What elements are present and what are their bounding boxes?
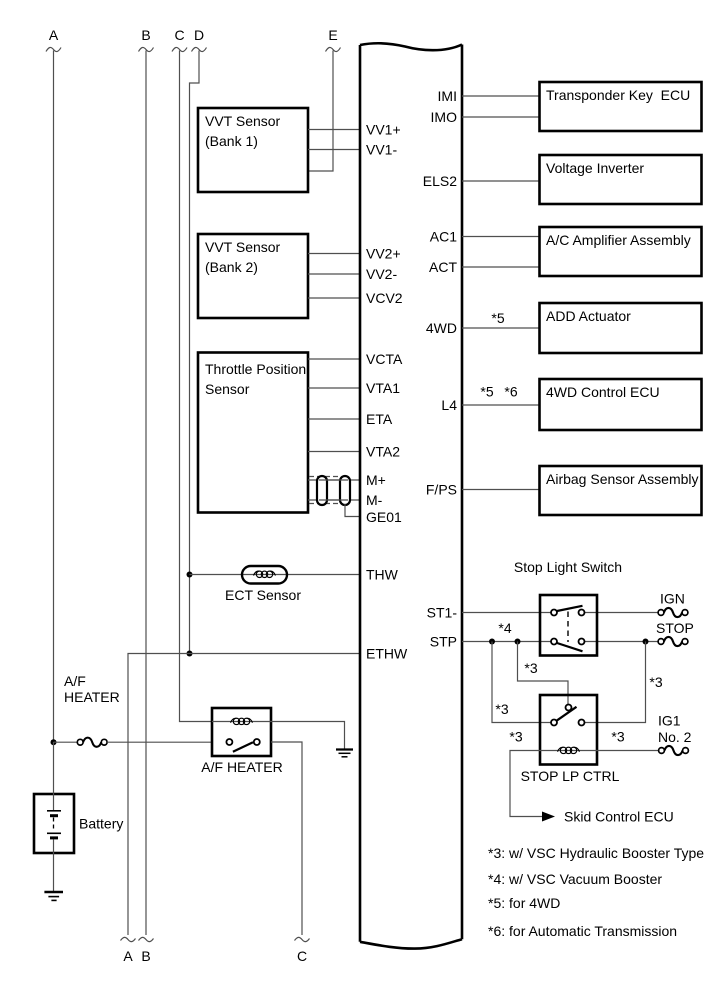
A/F relay switch blade [233, 742, 253, 752]
junction dot THW on D feeder [187, 572, 193, 578]
pin label VV1+ [366, 122, 401, 138]
connector label D (top) [194, 27, 204, 43]
wire from junction to fuse [54, 741, 78, 743]
pin label IMI [438, 88, 457, 104]
contact circle relay bottom-left [551, 720, 557, 726]
A/F relay coil glyph [231, 718, 253, 724]
svg-text:GE01: GE01 [366, 509, 402, 525]
break symbol at connector E [326, 47, 341, 51]
svg-text:C: C [297, 948, 307, 964]
shield connector capsule right [340, 476, 350, 505]
svg-text:A: A [123, 948, 133, 964]
svg-text:Voltage Inverter: Voltage Inverter [546, 160, 644, 176]
pin label ST1- [427, 605, 458, 621]
contact circle relay bottom-right [579, 720, 585, 726]
label *5 on 4WD wire [491, 310, 504, 326]
svg-text:ACT: ACT [429, 259, 457, 275]
label *3 near x531 [524, 660, 537, 676]
svg-text:4WD Control ECU: 4WD Control ECU [546, 384, 660, 400]
note *3 [488, 845, 704, 861]
label *3 near x656 [649, 674, 662, 690]
wire STP to stop light switch and STOP [462, 641, 658, 643]
svg-text:VVT Sensor: VVT Sensor [205, 113, 281, 129]
wire ELS2 [462, 180, 539, 182]
pin label M- [366, 492, 383, 508]
ECT Sensor label [225, 587, 301, 603]
svg-text:VVT Sensor: VVT Sensor [205, 239, 281, 255]
note *6 [488, 923, 677, 939]
ground symbol at relay coil [336, 750, 353, 757]
svg-text:A/F HEATER: A/F HEATER [201, 759, 282, 775]
svg-text:(Bank 1): (Bank 1) [205, 133, 258, 149]
svg-text:IG1: IG1 [658, 713, 681, 729]
svg-text:*4: w/ VSC Vacuum Booster: *4: w/ VSC Vacuum Booster [488, 871, 662, 887]
pin label F/PS [426, 482, 457, 498]
note *5 [488, 895, 560, 911]
Transponder Key ECU box [540, 82, 702, 131]
VVT Sensor (Bank 1) box [198, 108, 308, 192]
Stop Light Switch box S1 [540, 595, 597, 656]
4WD Control ECU box [540, 379, 702, 430]
break symbol at connector A [46, 47, 61, 51]
label *6 on L4 wire [504, 384, 517, 400]
svg-text:L4: L4 [441, 397, 457, 413]
relay coil glyph [558, 747, 580, 753]
connector label A (top) [49, 27, 59, 43]
contact circle S1 bottom-left [551, 639, 557, 645]
wire VV1- [308, 149, 360, 151]
bottom connector label A [123, 948, 133, 964]
fuse break connector on battery feed [77, 738, 107, 747]
Skid Control ECU label [564, 809, 674, 825]
pin label ETHW [366, 646, 408, 662]
Stop Light Switch title [514, 559, 622, 575]
STOP break connector [658, 637, 688, 646]
svg-text:D: D [194, 27, 204, 43]
wire battery to ground [53, 840, 55, 892]
svg-text:IMO: IMO [431, 109, 458, 125]
wire STP branch to relay bottom-left [492, 642, 551, 723]
svg-text:C: C [174, 27, 184, 43]
svg-text:B: B [141, 948, 150, 964]
svg-text:*5: for 4WD: *5: for 4WD [488, 895, 560, 911]
SECTION: connectors top [46, 27, 341, 935]
pin label VTA2 [366, 444, 400, 460]
relay switch blade [557, 707, 577, 721]
wire E feeder down to VVT sensor bank1 third pin [308, 51, 333, 172]
svg-text:*5: *5 [491, 310, 504, 326]
wire VCTA [308, 358, 360, 360]
wire VV1+ [308, 129, 360, 131]
switch blade S1 top [557, 606, 583, 611]
svg-text:*3: *3 [649, 674, 662, 690]
pin label ETA [366, 411, 393, 427]
svg-text:VCV2: VCV2 [366, 290, 403, 306]
svg-text:Sensor: Sensor [205, 381, 250, 397]
pin label M+ [366, 472, 386, 488]
svg-text:STOP LP CTRL: STOP LP CTRL [521, 768, 620, 784]
contact circle A/F relay left [226, 739, 232, 745]
wire ACT [462, 266, 539, 268]
wire relay coil to ground [271, 722, 345, 750]
Battery label [79, 816, 123, 832]
svg-text:Airbag Sensor Assembly: Airbag Sensor Assembly [546, 471, 699, 487]
break symbol at connector C [172, 47, 187, 51]
pin label VTA1 [366, 380, 400, 396]
STOP LP CTRL relay box [540, 695, 597, 765]
pin label THW [366, 567, 399, 583]
IGN break connector [658, 608, 688, 617]
wire L4 [462, 404, 539, 406]
wire GE01 shield drain [345, 504, 360, 517]
svg-text:THW: THW [366, 567, 399, 583]
label *3 near x618 [611, 729, 624, 745]
SECTION: lower left [34, 673, 353, 964]
wire VTA2 [308, 451, 360, 453]
STOP LP CTRL label [521, 768, 620, 784]
wire VV2+ [308, 253, 360, 255]
junction dot STP at x645.5 [643, 639, 649, 645]
svg-text:Throttle Position: Throttle Position [205, 361, 306, 377]
ADD Actuator box [540, 303, 702, 353]
break symbol at connector D [192, 47, 207, 51]
bottom connector B break symbol [139, 937, 154, 941]
svg-text:VTA1: VTA1 [366, 380, 400, 396]
bottom connector A break symbol [121, 937, 136, 941]
svg-text:*6: *6 [504, 384, 517, 400]
relay coil wire [540, 750, 597, 752]
mechanical link dashed S1 [567, 612, 569, 643]
svg-text:ELS2: ELS2 [423, 173, 457, 189]
svg-text:*4: *4 [498, 620, 511, 636]
svg-text:ECT Sensor: ECT Sensor [225, 587, 301, 603]
ECT sensor capsule [242, 566, 287, 584]
wire C vertical feeder down to A/F heater relay coil [180, 51, 213, 722]
label *4 [498, 620, 511, 636]
svg-text:*3: *3 [495, 701, 508, 717]
svg-text:B: B [141, 27, 150, 43]
svg-text:STOP: STOP [656, 620, 694, 636]
contact circle S1 top-left [551, 610, 557, 616]
bottom connector label B [141, 948, 150, 964]
IG1 break connector [659, 746, 689, 755]
svg-text:IGN: IGN [660, 591, 685, 607]
wire STOP branch down to relay bottom-right [585, 642, 646, 723]
relay coil wire inside box [212, 721, 271, 723]
svg-text:A: A [49, 27, 59, 43]
wire AC1 [462, 236, 539, 238]
label *3 near x502 [495, 701, 508, 717]
svg-text:E: E [328, 27, 337, 43]
contact circle S1 top-right [579, 610, 585, 616]
svg-text:4WD: 4WD [426, 320, 457, 336]
arrowhead to skid control ECU [542, 812, 555, 822]
svg-text:*3: *3 [524, 660, 537, 676]
svg-text:Transponder Key ECU: Transponder Key ECU [546, 87, 690, 103]
junction dot ETHW on D feeder [187, 651, 193, 657]
IGN label [660, 591, 685, 607]
svg-text:IMI: IMI [438, 88, 457, 104]
wire 4WD [462, 327, 539, 329]
svg-text:VV1+: VV1+ [366, 122, 401, 138]
wire M+ [308, 479, 360, 481]
pin label 4WD [426, 320, 457, 336]
bottom connector label C [297, 948, 307, 964]
svg-text:*3: *3 [509, 729, 522, 745]
svg-text:HEATER: HEATER [64, 689, 120, 705]
shield dashed outline for M+/M- pair [309, 477, 340, 504]
svg-text:VCTA: VCTA [366, 351, 403, 367]
wire IMO [462, 116, 539, 118]
Voltage Inverter box [540, 155, 702, 204]
contact circle relay top common [566, 705, 572, 711]
SECTION: sensor boxes [128, 108, 360, 935]
ground symbol at battery [44, 892, 63, 900]
pin label STP [430, 634, 457, 650]
contact circle S1 bottom-right [579, 639, 585, 645]
svg-text:VTA2: VTA2 [366, 444, 400, 460]
wire ST1- to stop light switch and IGN [462, 612, 658, 614]
wire coil to IG1 break connector [597, 750, 659, 752]
svg-text:Stop Light Switch: Stop Light Switch [514, 559, 622, 575]
SECTION: notes [488, 845, 704, 939]
svg-text:*5: *5 [480, 384, 493, 400]
pin label L4 [441, 397, 457, 413]
svg-text:ST1-: ST1- [427, 605, 458, 621]
SECTION: right boxes [462, 82, 702, 515]
junction dot STP at x492 [489, 639, 495, 645]
svg-text:(Bank 2): (Bank 2) [205, 259, 258, 275]
wire fuse to A/F heater relay switch [107, 741, 212, 743]
pin label AC1 [430, 229, 457, 245]
wire ETA [308, 418, 360, 420]
svg-text:Battery: Battery [79, 816, 123, 832]
wire M+ through capsules [319, 479, 348, 481]
break symbol at connector B [139, 47, 154, 51]
ECT sensor coil glyph [254, 571, 276, 577]
svg-text:A/F: A/F [64, 673, 86, 689]
SECTION: stop light area [462, 559, 694, 825]
contact circle A/F relay right [254, 739, 260, 745]
shield connector capsule left [317, 476, 327, 505]
connector label C (top) [174, 27, 184, 43]
wire VTA1 [308, 387, 360, 389]
svg-text:*6: for Automatic Transmission: *6: for Automatic Transmission [488, 923, 677, 939]
wire relay switch to bottom connector C [271, 742, 302, 935]
svg-text:*3: w/ VSC Hydraulic Booster T: *3: w/ VSC Hydraulic Booster Type [488, 845, 704, 861]
wire M- through capsules [319, 499, 348, 501]
connector label E (top) [328, 27, 337, 43]
pin label ACT [429, 259, 457, 275]
STOP label [656, 620, 694, 636]
ECM torn-edge bar outline [360, 43, 462, 948]
svg-text:VV2+: VV2+ [366, 246, 401, 262]
battery cell symbol [47, 742, 61, 838]
label *3 near x516 [509, 729, 522, 745]
svg-text:VV2-: VV2- [366, 266, 397, 282]
pin label VV2+ [366, 246, 401, 262]
junction dot STP at x517.5 [515, 639, 521, 645]
svg-text:ADD Actuator: ADD Actuator [546, 308, 631, 324]
svg-text:Skid Control ECU: Skid Control ECU [564, 809, 674, 825]
pin label ELS2 [423, 173, 457, 189]
pin label GE01 [366, 509, 402, 525]
svg-text:M-: M- [366, 492, 383, 508]
svg-text:A/C Amplifier Assembly: A/C Amplifier Assembly [546, 232, 691, 248]
SECTION: ecu bar [360, 43, 462, 948]
svg-text:*3: *3 [611, 729, 624, 745]
svg-text:No. 2: No. 2 [658, 729, 692, 745]
svg-text:F/PS: F/PS [426, 482, 457, 498]
A/F HEATER net label (left) [64, 673, 120, 705]
wire VCV2 [308, 297, 360, 299]
wire A vertical feeder [53, 51, 55, 743]
svg-text:ETA: ETA [366, 411, 393, 427]
wire D feeder with jog to x=189.5 down to ETHW [190, 51, 200, 654]
wire VV2- [308, 273, 360, 275]
VVT Sensor (Bank 2) box [198, 234, 308, 318]
svg-text:ETHW: ETHW [366, 646, 408, 662]
Battery box [34, 794, 74, 853]
A/F HEATER relay label [201, 759, 282, 775]
A/F HEATER relay box [212, 708, 271, 756]
note *4 [488, 871, 662, 887]
wire F/PS [462, 489, 539, 491]
label *5 on L4 wire [480, 384, 493, 400]
wire IMI [462, 95, 539, 97]
wire THW [190, 574, 361, 576]
wire STP branch to relay coil common (via x568) [518, 642, 569, 705]
A/C Amplifier Assembly box [540, 227, 702, 276]
Airbag Sensor Assembly box [540, 466, 702, 515]
junction dot battery feed [51, 739, 57, 745]
svg-text:M+: M+ [366, 472, 386, 488]
wire ETHW to bottom connector A [128, 654, 360, 936]
pin label VV1- [366, 142, 397, 158]
Throttle Position Sensor box [198, 353, 308, 513]
svg-text:AC1: AC1 [430, 229, 457, 245]
svg-text:STP: STP [430, 634, 457, 650]
switch blade S1 bottom [557, 643, 583, 651]
bottom connector C break symbol [295, 937, 310, 941]
pin label VV2- [366, 266, 397, 282]
wire B vertical feeder full height [145, 51, 147, 936]
wire M- [308, 499, 360, 501]
svg-text:VV1-: VV1- [366, 142, 397, 158]
wire coil left to skid control ECU arrow [510, 751, 545, 817]
pin label VCTA [366, 351, 403, 367]
connector label B (top) [141, 27, 150, 43]
pin label IMO [431, 109, 458, 125]
IG1 No.2 labels [658, 713, 692, 746]
pin label VCV2 [366, 290, 403, 306]
